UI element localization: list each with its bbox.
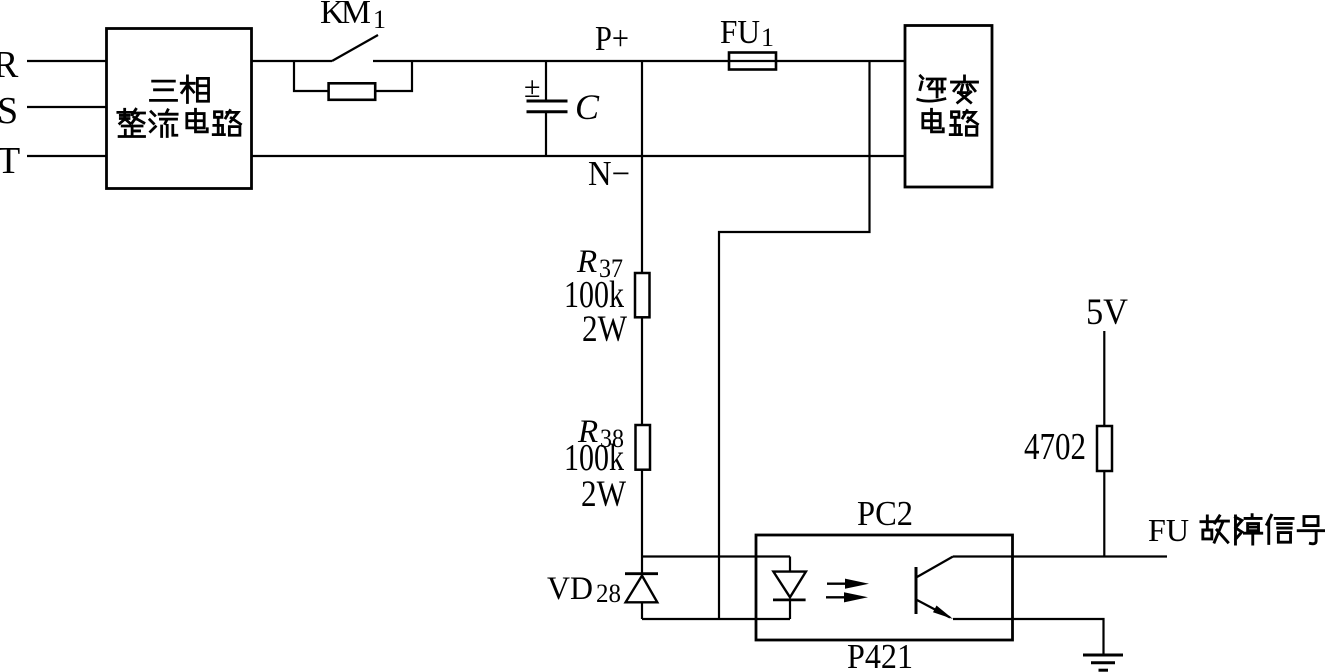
wire emitter to ground [953,619,1104,655]
svg-text:4702: 4702 [1024,426,1086,468]
svg-text:S: S [0,90,18,132]
phototransistor PC2 output [916,557,953,620]
svg-text:1: 1 [373,5,386,34]
svg-text:T: T [0,140,20,182]
label FU1 [720,14,774,52]
wire opto loop top [642,555,790,557]
svg-text:2W: 2W [582,309,627,350]
diode VD28 [625,557,658,620]
switch KM1 contact [332,35,905,61]
wire collector output [953,555,1167,557]
wire opto loop bottom [642,618,790,620]
svg-text:N−: N− [588,154,630,193]
svg-text:1: 1 [761,23,774,52]
LED optocoupler input [773,557,806,620]
label R37 [576,244,623,283]
label R38 [577,414,624,453]
wire R38 to VD28 [641,470,643,557]
label FU 故障信号 [1148,512,1324,548]
wire bypass left stub [294,61,329,91]
label KM1 [320,0,386,34]
block rectifier 三相整流电路 [107,29,252,189]
resistor 4702 [1097,426,1112,471]
capacitor C [527,61,568,156]
svg-text:2W: 2W [581,474,626,515]
svg-text:C: C [575,87,600,127]
svg-text:5V: 5V [1086,292,1128,333]
ground [1083,655,1123,670]
label VD28 [547,571,621,608]
svg-text:FU: FU [720,14,760,51]
wire S phase [27,106,106,108]
svg-text:PC2: PC2 [857,494,913,533]
wire 5V feed [1103,331,1105,426]
wire N- bus [252,155,906,157]
optocoupler PC2 box [756,535,1013,640]
svg-text:VD: VD [547,571,593,607]
wire R phase [27,60,106,62]
svg-text:FU: FU [1148,512,1189,548]
wire fuse-node sense line [719,61,870,619]
resistor bypass (KM1 parallel) [329,83,376,100]
svg-text:KM: KM [320,0,371,31]
svg-text:28: 28 [596,579,621,608]
wire rectifier output to switch [252,60,333,62]
wire R37 to R38 [641,317,643,425]
svg-text:±: ± [524,71,540,104]
wire bypass right stub [375,61,412,91]
wire T phase [27,155,106,157]
light coupling arrows [826,579,869,603]
svg-text:P+: P+ [595,19,629,58]
resistor R37 [635,273,650,317]
resistor R38 [636,425,651,470]
fuse FU1 [729,53,776,70]
svg-text:100k: 100k [564,437,624,479]
block inverter 逆变电路 [905,26,992,188]
wire P+ sense drop [641,61,643,273]
wire 4702 to collector node [1103,471,1105,557]
svg-text:R: R [0,44,19,86]
svg-text:P421: P421 [847,637,913,672]
